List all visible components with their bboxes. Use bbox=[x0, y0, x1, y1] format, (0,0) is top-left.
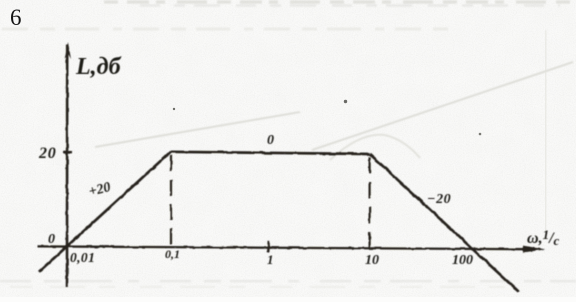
speck dot upper middle bbox=[344, 100, 347, 103]
svg-text:−20: −20 bbox=[427, 192, 451, 207]
speck dot right bbox=[479, 133, 482, 136]
svg-text:1: 1 bbox=[267, 252, 274, 267]
svg-text:0,1: 0,1 bbox=[165, 247, 180, 261]
svg-text:0: 0 bbox=[267, 133, 274, 148]
page number 6 bbox=[10, 5, 22, 30]
tick 20 dB bbox=[64, 151, 73, 154]
svg-text:0: 0 bbox=[48, 232, 55, 247]
svg-text:6: 6 bbox=[10, 5, 22, 30]
trace flat segment 0 dB/dec bbox=[171, 152, 370, 154]
scan smudge band bottom bbox=[0, 281, 576, 287]
svg-text:10: 10 bbox=[365, 253, 379, 268]
dashed line at omega=10 bbox=[369, 157, 371, 250]
bleed-through faint peak bbox=[330, 135, 420, 160]
x-axis bbox=[37, 246, 546, 253]
trace falling segment -20 dB/dec bbox=[370, 154, 519, 292]
bleed-through faint diagonal left bbox=[95, 112, 300, 147]
svg-text:0,01: 0,01 bbox=[70, 250, 95, 265]
trace rising segment +20 dB/dec bbox=[39, 152, 171, 272]
tick omega=1 bbox=[267, 241, 270, 252]
speck dot upper left bbox=[173, 108, 175, 110]
y-axis bbox=[65, 42, 71, 287]
svg-text:20: 20 bbox=[38, 145, 57, 162]
faint fold line right bbox=[545, 30, 548, 235]
bleed-through faint diagonal right bbox=[312, 62, 573, 150]
dashed line at omega=0.1 bbox=[170, 155, 172, 246]
svg-text:L,дб: L,дб bbox=[75, 54, 122, 80]
svg-text:100: 100 bbox=[452, 253, 473, 268]
scan smudge band top bbox=[2, 2, 576, 29]
